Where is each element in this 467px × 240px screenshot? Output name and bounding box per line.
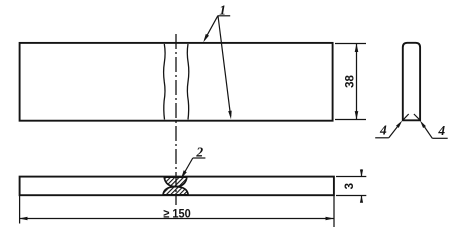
dimension >=150 extension line left xyxy=(19,195,21,223)
leader from label 2 to weld xyxy=(183,158,193,176)
dimension 3 extension line top xyxy=(336,176,366,178)
label 1 underline xyxy=(218,15,231,17)
leader from left 4 to bottom-left corner xyxy=(389,127,398,138)
svg-text:2: 2 xyxy=(195,144,203,159)
dimension 3 line lower segment with arrow xyxy=(361,195,363,202)
end view outline (rounded top corners) xyxy=(403,43,420,121)
chamfer mark bottom-right of end view xyxy=(414,114,420,120)
dimension 38 extension line bottom xyxy=(335,119,366,121)
label 2 underline xyxy=(193,157,206,159)
svg-text:38: 38 xyxy=(344,75,356,88)
weld seam wavy edge left (top view) xyxy=(164,44,166,120)
chamfer mark bottom-left of end view xyxy=(403,114,409,120)
side view plate outline xyxy=(20,177,334,196)
dimension 38 line xyxy=(356,44,358,120)
dimension >=150 extension line right xyxy=(333,195,335,227)
weld centerline (dash-dot) xyxy=(175,34,177,205)
label 4 right underline xyxy=(432,137,447,139)
leader from label 1 to bottom edge xyxy=(218,16,231,116)
label 4 left underline xyxy=(375,137,389,139)
top view plate outline xyxy=(20,43,333,121)
dimension 38 extension line top xyxy=(335,43,366,45)
dimension 3 extension line bottom xyxy=(336,195,366,197)
svg-text:3: 3 xyxy=(344,183,356,189)
svg-text:4: 4 xyxy=(437,123,445,138)
svg-text:4: 4 xyxy=(379,122,387,137)
dimension >=150 line xyxy=(20,218,334,220)
leader from right 4 to bottom-right corner xyxy=(425,127,433,138)
dimension 3 line upper segment with arrow xyxy=(361,169,363,176)
svg-text:≥ 150: ≥ 150 xyxy=(163,207,191,221)
weld seam wavy edge right (top view) xyxy=(187,44,189,120)
weld cross-section upper bead (hatched) xyxy=(164,177,187,187)
leader from label 1 to top edge xyxy=(205,16,218,40)
weld cross-section lower bead (hatched) xyxy=(163,187,188,195)
